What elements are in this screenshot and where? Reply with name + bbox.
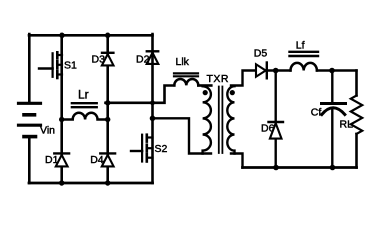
- inductor Lf: [290, 52, 319, 71]
- node Lr left junction: [59, 117, 64, 122]
- node bottom rail Cf: [330, 165, 336, 171]
- inductor Lr: [62, 103, 108, 119]
- resistor RL: [351, 71, 362, 168]
- node rail-D2 column junction: [150, 100, 155, 105]
- wire S2 drain to transformer primary bottom: [153, 118, 212, 153]
- wire top rail left circuit: [29, 34, 153, 37]
- node primary phase dot: [203, 90, 208, 95]
- wire secondary top to D5: [231, 71, 256, 86]
- svg-text:RL: RL: [340, 119, 354, 131]
- wire middle rail to Llk: [106, 86, 175, 103]
- node bottom rail D6: [273, 165, 279, 171]
- node D3 top at rail: [105, 33, 110, 38]
- inductor Llk: [174, 73, 211, 85]
- wire bottom rail left circuit: [29, 182, 153, 185]
- svg-text:D6: D6: [261, 123, 275, 135]
- node S1 drain at top rail: [59, 33, 64, 38]
- capacitor Cf: [322, 71, 346, 168]
- node rail-D3 column junction: [105, 100, 110, 105]
- node D5-D6 junction: [273, 68, 279, 74]
- diode D2: [147, 51, 159, 64]
- battery Vin: [19, 103, 41, 136]
- svg-text:D1: D1: [45, 154, 59, 166]
- wire D5 to Lf: [267, 69, 291, 71]
- transistor Q S1: [39, 52, 62, 78]
- node secondary phase dot: [230, 90, 235, 95]
- wire bottom rail right circuit: [243, 166, 357, 169]
- svg-text:D5: D5: [254, 48, 268, 60]
- svg-text:Lr: Lr: [78, 88, 89, 102]
- svg-text:Lf: Lf: [296, 39, 305, 51]
- svg-text:D2: D2: [136, 54, 150, 66]
- svg-text:S1: S1: [64, 60, 77, 72]
- transformer core: [219, 87, 223, 154]
- wire column B vertical (S1 drain-source / D1 / Lr left): [60, 34, 63, 184]
- transistor Q S2: [131, 135, 153, 162]
- wire left vertical from top rail to battery: [28, 34, 31, 102]
- wire battery bottom to bottom rail: [28, 137, 31, 183]
- wire secondary bottom to output rail: [231, 154, 243, 168]
- node Cf junction: [329, 68, 335, 74]
- diode D5: [256, 63, 267, 79]
- svg-text:Llk: Llk: [176, 56, 190, 68]
- node bottom rail D1: [59, 180, 64, 185]
- svg-text:Vin: Vin: [40, 125, 55, 137]
- diode D6: [269, 71, 284, 168]
- wire column D vertical (D2 / S2): [151, 34, 154, 183]
- transformer TXR primary winding: [203, 86, 211, 153]
- wire Lf to RL top: [317, 69, 357, 71]
- svg-text:S2: S2: [155, 143, 168, 155]
- svg-text:TXR: TXR: [207, 73, 230, 85]
- svg-text:D4: D4: [90, 154, 104, 166]
- diode D4: [100, 153, 115, 166]
- node Lr right junction: [105, 117, 110, 122]
- node S2 drain junction: [150, 116, 156, 122]
- node bottom rail D4: [105, 180, 110, 185]
- svg-text:D3: D3: [92, 54, 106, 66]
- diode D1: [54, 153, 69, 166]
- transformer TXR secondary winding: [227, 86, 234, 153]
- diode D3: [102, 53, 114, 66]
- svg-text:Cf: Cf: [311, 106, 322, 118]
- wire column C vertical (D3 / D4): [106, 34, 109, 184]
